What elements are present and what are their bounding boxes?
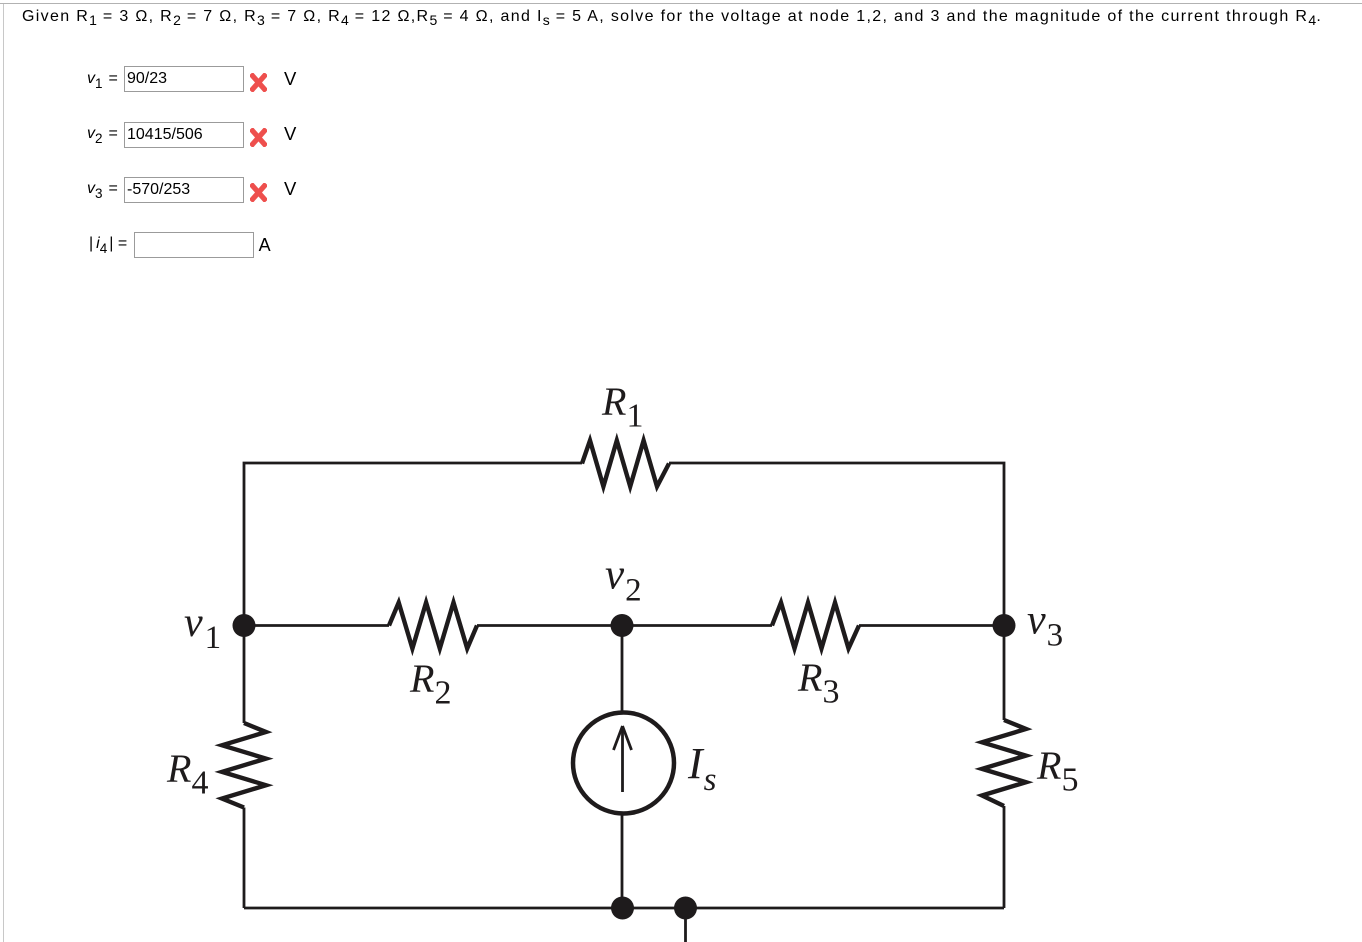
svg-text:R2: R2 xyxy=(409,656,451,712)
wire right below v3 xyxy=(1003,626,1006,721)
wrong mark 1 xyxy=(250,73,267,92)
current source Is circle xyxy=(573,713,674,814)
wire middle-center xyxy=(477,624,772,627)
svg-text:R4: R4 xyxy=(166,746,208,802)
bottom junction node left xyxy=(611,897,634,920)
svg-text:R3: R3 xyxy=(797,655,839,711)
wire center branch upper xyxy=(621,626,624,713)
input v1 xyxy=(124,66,244,92)
unit V xyxy=(284,125,296,144)
wire left below v1 xyxy=(243,626,246,724)
unit V xyxy=(284,70,296,89)
wire middle-right xyxy=(859,624,1004,627)
wire center branch lower xyxy=(621,814,624,909)
wire bottom xyxy=(244,907,1004,910)
svg-text:Is: Is xyxy=(687,739,717,798)
answer row i4 xyxy=(89,235,127,253)
svg-text:R1: R1 xyxy=(601,379,643,435)
wire right bottom xyxy=(1003,806,1006,908)
resistor R1 xyxy=(582,441,669,487)
current source arrow xyxy=(614,726,632,792)
bottom junction node right xyxy=(674,897,697,920)
left border xyxy=(3,4,4,942)
svg-text:R5: R5 xyxy=(1036,743,1078,799)
ground stub wire xyxy=(684,908,687,942)
node v3 xyxy=(993,614,1016,637)
svg-text:v1: v1 xyxy=(184,600,221,656)
input i4 (empty) xyxy=(134,232,254,258)
wire middle-left xyxy=(244,624,389,627)
wrong mark 2 xyxy=(250,128,267,147)
unit V xyxy=(284,180,296,199)
unit A xyxy=(259,236,271,254)
top border xyxy=(0,3,1362,4)
input v2 xyxy=(124,122,244,148)
svg-text:v2: v2 xyxy=(605,552,642,609)
node v1 xyxy=(233,614,256,637)
answer row v1 xyxy=(87,70,118,88)
wrong mark 3 xyxy=(250,183,267,202)
problem statement xyxy=(22,8,1322,26)
resistor R5 xyxy=(982,720,1026,806)
node v2 xyxy=(611,614,634,637)
resistor R2 xyxy=(389,603,477,649)
wire top-right segment xyxy=(669,463,1004,626)
svg-text:v3: v3 xyxy=(1027,598,1063,654)
answer row v2 xyxy=(87,125,118,143)
resistor R3 xyxy=(772,603,859,649)
answer row v3 xyxy=(87,180,118,198)
wire top-left segment xyxy=(244,463,582,626)
input v3 xyxy=(124,177,244,203)
resistor R4 xyxy=(222,723,266,808)
wire left bottom xyxy=(243,808,246,909)
